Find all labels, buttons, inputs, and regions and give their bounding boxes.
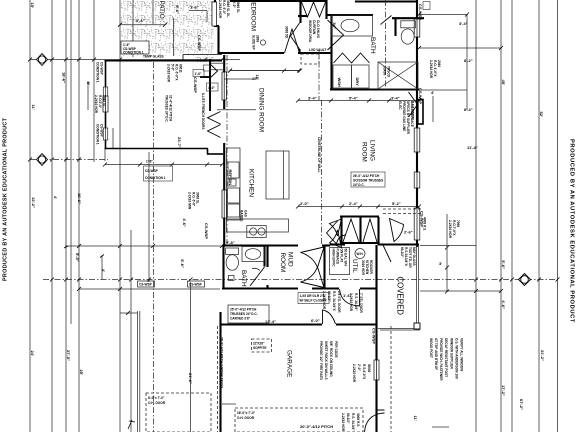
svg-text:WOOD POST: WOOD POST [429,338,433,358]
shower [378,62,418,89]
bedroom door [285,29,300,53]
svg-text:CS-WSP: CS-WSP [204,223,209,239]
svg-text:BATH: BATH [240,270,247,287]
bath south wall [330,88,419,90]
svg-text:DECAY RESISTANT POST: DECAY RESISTANT POST [444,338,448,377]
east wall [416,0,418,19]
svg-text:RANGE: RANGE [240,210,244,222]
svg-text:1'-6": 1'-6" [195,72,202,76]
svg-text:8'-4": 8'-4" [464,107,473,112]
tick slashes [28,13,560,316]
svg-text:REF: REF [228,170,233,179]
patio east wall [200,59,211,111]
svg-text:6'-0": 6'-0" [311,318,320,323]
svg-text:3-6-1/2"W IN: 3-6-1/2"W IN [410,101,414,120]
svg-text:5'-2": 5'-2" [392,201,401,206]
horizontal small labels [136,5,468,430]
closet chevrons [343,219,359,242]
svg-text:16'-0"x 7'-0": 16'-0"x 7'-0" [237,411,256,415]
svg-text:DINING ROOM: DINING ROOM [258,88,265,132]
svg-text:SCISSOR TRUSSES: SCISSOR TRUSSES [353,179,383,183]
top wall [355,0,417,2]
svg-text:1'-6": 1'-6" [190,5,199,10]
svg-text:3'-4": 3'-4" [391,96,400,101]
right long dimension lines [447,0,558,432]
windows: east wall [103,2,420,380]
svg-text:4'-0": 4'-0" [208,86,215,90]
west wall windows [103,87,107,140]
svg-text:36X60: 36X60 [383,66,387,75]
svg-text:SHEET ROCK ON WALLS: SHEET ROCK ON WALLS [324,341,328,380]
wc door [381,16,392,25]
util east / garage east wall [375,245,377,360]
svg-text:5'-6": 5'-6" [501,260,506,269]
svg-text:2-2X10 MIN: 2-2X10 MIN [188,192,192,210]
svg-text:W030: W030 [367,364,371,373]
living south wall [378,243,419,245]
south wall of mud block [222,287,298,289]
svg-text:MUD: MUD [287,252,294,267]
svg-text:KITCHEN: KITCHEN [248,169,255,197]
garage east window [374,360,379,380]
fireplace [418,100,423,125]
svg-text:GARAGE: GARAGE [286,350,293,377]
hall north stub [298,15,307,17]
svg-text:LIVING: LIVING [369,140,376,161]
patio stipple hatch [121,0,214,56]
garage dashed lines [146,209,422,432]
svg-text:CS-WSP: CS-WSP [418,88,423,104]
svg-text:7' STL DOOR: 7' STL DOOR [359,293,363,314]
svg-text:CONDITION 1: CONDITION 1 [96,62,100,83]
svg-text:O.H. DOOR: O.H. DOOR [148,401,166,405]
vanity [332,15,373,36]
island [266,151,289,199]
hall west door [291,23,300,49]
garage north door arc [323,310,336,324]
svg-text:5'-0": 5'-0" [232,1,236,8]
svg-text:ROOM: ROOM [279,253,286,273]
svg-text:3068 5D: 3068 5D [285,26,289,39]
svg-text:PATIO: PATIO [158,1,165,19]
svg-text:26'-0"-4/12 PITCH: 26'-0"-4/12 PITCH [353,174,380,178]
svg-text:5'-5": 5'-5" [75,253,80,262]
svg-text:CARVED 3'8": CARVED 3'8" [230,317,251,321]
svg-text:COVERED: COVERED [396,277,405,316]
grid line D dashdot [43,279,558,281]
svg-text:R.S.4'-0"X: R.S.4'-0"X [362,364,366,380]
left long dimension lines [30,0,191,432]
bath2/mud divider [266,246,268,267]
svg-text:16': 16' [252,76,257,81]
svg-text:11': 11' [413,416,418,421]
mud east fan doors [301,247,325,268]
bedroom west wall [214,0,216,27]
patio french doors [208,112,221,125]
svg-text:12'-2": 12'-2" [31,197,36,208]
garage west wall [219,312,221,432]
svg-text:LXD VAULT: LXD VAULT [309,48,326,52]
svg-text:2-2X10 HDR: 2-2X10 HDR [448,220,452,239]
svg-text:1'-6": 1'-6" [146,160,153,164]
svg-text:2'-0": 2'-0" [357,364,361,371]
boxed notes [103,41,385,420]
svg-text:60-1/2": 60-1/2" [346,413,350,424]
svg-text:8'-0"x 7'-0": 8'-0"x 7'-0" [148,396,165,400]
svg-text:3010 HDR: 3010 HDR [361,260,365,276]
grid bubble D [519,274,531,286]
svg-text:4'-6": 4'-6" [501,300,506,309]
svg-text:8'-2": 8'-2" [464,58,473,63]
svg-text:TRUSSES 24"O.C.: TRUSSES 24"O.C. [165,95,169,123]
svg-text:5'-6": 5'-6" [136,18,145,23]
svg-text:O.H. DOOR: O.H. DOOR [237,416,255,420]
svg-text:22'X28": 22'X28" [253,342,265,346]
svg-text:80-1/2": 80-1/2" [400,247,404,258]
patio room west wall [105,61,107,87]
svg-text:5'-8": 5'-8" [226,240,235,245]
svg-text:CS-WSP: CS-WSP [193,77,198,93]
svg-text:54": 54" [332,23,337,29]
util top door arc [337,235,346,244]
garage north wall [221,323,322,325]
hall/wall centerlines [154,0,386,432]
svg-text:2-2X10 HDR: 2-2X10 HDR [167,64,171,83]
patio room north wall [105,60,184,62]
svg-text:25': 25' [79,370,84,375]
vanity north wall [327,14,373,16]
svg-text:2-2X10 HDR: 2-2X10 HDR [352,364,356,383]
toilet [401,21,416,28]
svg-text:SOFFITE: SOFFITE [253,346,266,350]
svg-text:3068 R.S.: 3068 R.S. [356,413,360,427]
svg-text:CONDITION 1: CONDITION 1 [123,51,144,55]
svg-text:21'-6": 21'-6" [188,373,193,384]
svg-text:16'-6": 16'-6" [62,72,67,83]
svg-text:15': 15' [30,3,35,8]
svg-text:4': 4' [431,90,434,95]
svg-text:WINDOW SUPPLIER: WINDOW SUPPLIER [450,338,454,370]
bath2 inner wall [263,246,265,267]
bedroom closet bifold [302,2,326,17]
svg-text:20'-0"-4/12 PITCH: 20'-0"-4/12 PITCH [300,424,333,429]
laundry bifold [334,53,370,63]
kitchen counters [227,148,290,238]
svg-text:1,X5 DR GLR 2'8: 1,X5 DR GLR 2'8 [300,294,325,298]
bedroom east wall [299,0,301,23]
svg-text:21'-2": 21'-2" [540,350,545,361]
svg-text:CS-WSP: CS-WSP [189,283,203,287]
svg-text:CONDITION 1: CONDITION 1 [96,124,100,145]
covered porch edge [378,245,420,330]
svg-text:4': 4' [53,196,58,199]
svg-text:24': 24' [30,351,35,356]
svg-text:PROVIDE W/CH. FASTENER: PROVIDE W/CH. FASTENER [439,338,443,381]
svg-text:2'-0": 2'-0" [300,201,309,206]
svg-text:8-LITE FRENCH DOORS: 8-LITE FRENCH DOORS [201,93,205,129]
svg-text:27'-5": 27'-5" [66,350,71,361]
svg-text:1'-6": 1'-6" [343,293,352,298]
door symbols [208,2,404,432]
walls [215,0,424,432]
bath door [328,20,344,50]
bath2 fixtures [226,247,264,281]
svg-text:HIGH EFFIC: HIGH EFFIC [332,249,336,268]
porch door fan [390,219,404,242]
svg-text:WSH: WSH [337,78,342,87]
svg-text:3': 3' [439,261,442,266]
garage se door [365,410,385,432]
svg-text:5'-6": 5'-6" [175,5,180,14]
svg-text:CONDITION 1: CONDITION 1 [145,176,166,180]
svg-text:5/8" ROCK ON CEILING: 5/8" ROCK ON CEILING [329,341,333,377]
svg-text:5': 5' [86,82,91,85]
svg-text:20'-0"-4/12 PITCH GIRDER TRUSS: 20'-0"-4/12 PITCH GIRDER TRUSS [220,337,224,388]
svg-text:TRUSSES 24"O.C.: TRUSSES 24"O.C. [230,312,258,316]
svg-text:UTIL: UTIL [351,259,358,273]
svg-text:2-2X10 HDR: 2-2X10 HDR [429,60,433,79]
svg-text:17'-2": 17'-2" [501,385,506,396]
svg-text:CS-WSP: CS-WSP [420,211,425,227]
svg-text:O.S. WITH ANDERSON 100: O.S. WITH ANDERSON 100 [455,338,459,379]
svg-text:W.H.: W.H. [357,252,364,256]
room labels [158,0,405,377]
patio west window [103,96,108,112]
svg-text:23'-7": 23'-7" [177,137,182,148]
living closet fans [330,219,342,236]
svg-text:CS-WSP: CS-WSP [418,4,423,20]
svg-text:11'-4": 11'-4" [467,145,478,150]
svg-text:R.S. 34-3/4": R.S. 34-3/4" [354,293,358,311]
svg-text:ROOM: ROOM [361,142,368,162]
svg-text:52': 52' [539,112,544,117]
main west wall [223,55,225,72]
svg-text:5'-6": 5'-6" [180,259,185,268]
closet south walls [340,242,379,244]
hall south wall [298,52,332,54]
svg-text:24"O.C.: 24"O.C. [353,183,365,187]
util south door [340,289,360,306]
svg-text:W/DOOR DR/A: W/DOOR DR/A [308,20,312,43]
svg-text:ELEC: ELEC [398,101,402,110]
wc divider wall [392,17,424,19]
svg-text:BATH: BATH [369,37,376,54]
grid bubble B [37,54,48,66]
svg-text:11': 11' [31,105,36,110]
grid line B horizontal [30,59,240,61]
bath2 door [250,267,265,286]
bath top fixtures [332,15,419,89]
svg-text:VERIFY ALL WINDOW: VERIFY ALL WINDOW [460,338,464,371]
closet east wall [325,0,327,19]
svg-text:CS-WSP: CS-WSP [145,169,159,173]
svg-text:2'8 STL DOOR: 2'8 STL DOOR [337,291,341,313]
bedroom west window [212,2,217,26]
svg-text:DRY: DRY [355,78,360,87]
svg-text:3'-4": 3'-4" [459,21,468,26]
patio north door [210,64,218,78]
svg-text:CS-WSP: CS-WSP [372,328,377,344]
wsh dry [333,65,352,88]
svg-text:TEMP GLASS: TEMP GLASS [143,55,164,59]
laundry west wall [330,62,332,90]
svg-text:2'-6": 2'-6" [404,230,413,235]
svg-text:CS-WSP: CS-WSP [139,283,153,287]
mud/util divider [323,246,325,289]
mud/util north wall [222,244,298,246]
svg-text:5'-4": 5'-4" [349,96,358,101]
grid bubble C [37,154,48,166]
svg-text:CENTERLINE OF WALL: CENTERLINE OF WALL [317,137,321,173]
svg-text:R.S. 34-3/4"X: R.S. 34-3/4"X [332,291,336,312]
bedroom south wall [218,52,284,54]
svg-text:67'-2": 67'-2" [519,399,524,410]
svg-text:45': 45' [501,80,506,85]
svg-text:W/ SELF CLOSER: W/ SELF CLOSER [300,299,328,303]
kitchen/mud door [327,221,338,245]
svg-text:R.S. 34-3/4": R.S. 34-3/4" [351,413,355,431]
svg-text:SLIDE BP: SLIDE BP [252,35,256,51]
svg-text:16'-6": 16'-6" [77,193,82,204]
svg-text:SIN: SIN [228,179,233,186]
svg-text:2-2X10 HDR: 2-2X10 HDR [218,0,222,19]
svg-text:BEDROOM: BEDROOM [250,0,257,31]
patio room south wall [105,148,209,150]
svg-text:25'-0"-4/12 PITCH: 25'-0"-4/12 PITCH [230,308,257,312]
svg-text:2-2X10 HDR: 2-2X10 HDR [341,413,345,432]
svg-text:AT TOP AND BTM OF: AT TOP AND BTM OF [434,338,438,370]
svg-text:PROVIDE 1/2" FIRE RATD: PROVIDE 1/2" FIRE RATD [319,341,323,381]
util fixtures [330,248,366,275]
svg-text:CS-WSP: CS-WSP [197,35,202,51]
svg-text:2-2X10 HDR: 2-2X10 HDR [94,95,98,114]
svg-text:4': 4' [101,269,106,272]
mud west wall [222,246,224,289]
bath west wall [330,14,332,64]
assorted dimension lines [65,0,501,404]
svg-text:PRODUCED BY AN AUTODESK EDUCAT: PRODUCED BY AN AUTODESK EDUCATIONAL PROD… [3,117,9,281]
svg-text:PRODUCED BY AN AUTODESK EDUCAT: PRODUCED BY AN AUTODESK EDUCATIONAL PROD… [569,139,575,323]
svg-text:PER CODE: PER CODE [334,341,338,358]
grid line C dashdot [30,159,108,161]
svg-text:2'-4": 2'-4" [349,201,358,206]
svg-text:3'-4": 3'-4" [308,96,317,101]
svg-text:4'-6": 4'-6" [182,218,187,227]
